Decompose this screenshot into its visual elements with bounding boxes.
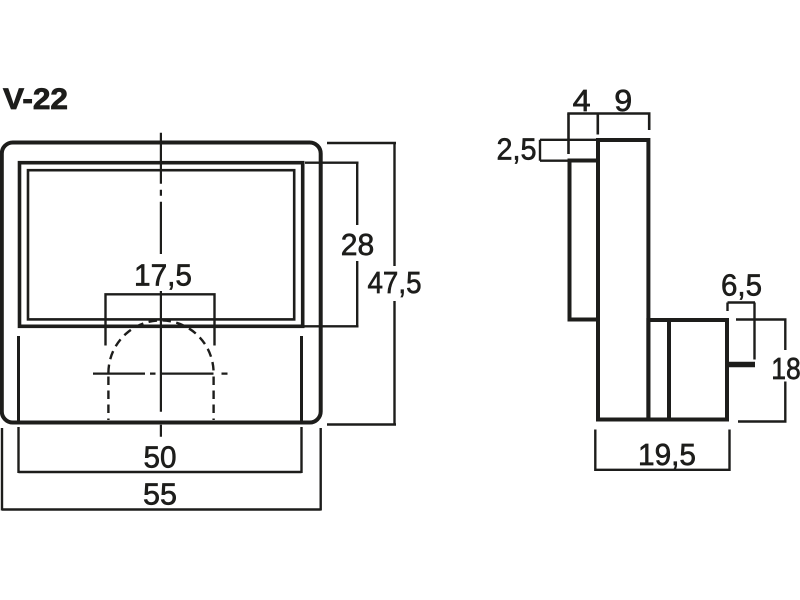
dimension 47,5: upper segment xyxy=(393,143,395,266)
svg-text:55: 55 xyxy=(143,477,177,512)
svg-text:2,5: 2,5 xyxy=(497,132,537,167)
dimension 18: lower segment xyxy=(784,382,786,422)
dimension 18: upper segment xyxy=(784,320,786,351)
dimension 28: upper segment xyxy=(356,163,358,225)
side view: mounting flange rect xyxy=(570,161,599,320)
dashed line right side of barrel xyxy=(212,373,214,420)
svg-text:19,5: 19,5 xyxy=(638,437,696,472)
label 17,5 backing xyxy=(134,254,194,291)
side view: rear body rect xyxy=(648,320,727,420)
vertical center line (dash-dot) xyxy=(160,133,162,437)
dimension 6,5: line xyxy=(728,301,756,303)
dimension 19,5: line xyxy=(595,469,729,471)
side view: terminal stub xyxy=(729,362,755,367)
front view: right panel edge below window xyxy=(300,336,303,421)
svg-text:4: 4 xyxy=(573,83,591,118)
dimension 6,5: right tick xyxy=(753,303,755,360)
dimension 18: bottom extension xyxy=(738,420,787,422)
svg-text:47,5: 47,5 xyxy=(368,265,422,300)
dimension 55: right extension xyxy=(320,428,322,511)
dashed circle (movement barrel, top half) xyxy=(108,320,213,373)
dimension 47,5: bottom extension line xyxy=(327,423,396,425)
svg-text:V-22: V-22 xyxy=(3,83,68,116)
front view: left panel edge below window xyxy=(17,336,20,421)
side view: bezel tall rect xyxy=(598,140,648,420)
dimension 4/9: line xyxy=(567,112,650,115)
svg-text:28: 28 xyxy=(341,227,375,262)
dimension 47,5: lower segment xyxy=(393,301,395,425)
dashed line left side of barrel xyxy=(107,373,109,420)
front view: window frame inner rect xyxy=(28,170,294,319)
dimension 50: right extension xyxy=(300,427,302,473)
svg-text:18: 18 xyxy=(771,351,800,386)
dimension 28: lower segment xyxy=(356,261,358,326)
horizontal center line (dash-dot) xyxy=(93,373,232,375)
dimension 50: line xyxy=(19,471,302,473)
dimension 28: top extension line xyxy=(305,161,359,163)
dimension 2,5: vertical connector xyxy=(539,140,541,161)
dimension 19,5: left extension xyxy=(594,430,596,472)
svg-text:9: 9 xyxy=(614,83,632,118)
dimension 28: bottom extension line xyxy=(304,325,359,327)
dimension bracket 17,5 xyxy=(106,294,215,345)
svg-text:50: 50 xyxy=(144,440,177,475)
dimension 2,5: bottom line xyxy=(540,159,570,161)
front view: outer bezel rounded rect xyxy=(2,143,321,423)
svg-text:17,5: 17,5 xyxy=(134,258,192,293)
dimension 4/9: middle tick xyxy=(596,114,599,135)
dimension 55: left extension xyxy=(1,428,3,511)
front view: window frame outer rect xyxy=(20,163,303,327)
dimension 47,5: top extension line xyxy=(327,142,396,144)
dimension 19,5: right extension xyxy=(728,430,730,472)
svg-text:6,5: 6,5 xyxy=(721,268,762,303)
dimension 18: top extension xyxy=(736,318,787,320)
dimension 6,5: left tick xyxy=(726,303,728,312)
dimension 2,5: top line xyxy=(540,139,598,141)
dimension 4/9: left tick xyxy=(567,114,570,155)
side view: rear body divider line xyxy=(667,320,671,420)
dimension 50: left extension xyxy=(17,427,19,473)
dimension 55: line xyxy=(2,508,321,510)
dimension 4/9: right tick xyxy=(648,114,651,131)
